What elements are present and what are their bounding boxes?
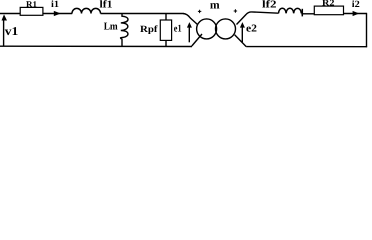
- svg-text:R1: R1: [26, 0, 37, 9]
- svg-text:v1: v1: [5, 24, 18, 38]
- wire R2 to right corner (with i2 arrow): [344, 13, 368, 15]
- polarity mark left: [198, 10, 201, 13]
- wire bottom rail left: [0, 45, 192, 47]
- resistor Rpf: [160, 20, 171, 40]
- resistor R2: [314, 6, 343, 15]
- current arrow i2: [353, 11, 360, 16]
- wire coil1 to transformer: [101, 13, 184, 15]
- wire Rpf top stub: [165, 14, 167, 21]
- inductor Lm (vertical loops): [121, 14, 128, 47]
- svg-text:R2: R2: [322, 0, 335, 8]
- transformer lead top-right: [237, 12, 252, 25]
- inductor lf2: [279, 8, 302, 13]
- svg-text:lf2: lf2: [262, 0, 277, 11]
- wire transformer to coil lf2: [252, 12, 279, 13]
- svg-text:Lm: Lm: [104, 22, 118, 33]
- resistor R1: [20, 7, 43, 15]
- transformer lead bottom-right: [235, 35, 247, 47]
- transformer lead bottom-left: [192, 34, 202, 46]
- svg-text:Rpf: Rpf: [140, 25, 158, 35]
- svg-text:e1: e1: [174, 24, 182, 35]
- svg-text:i2: i2: [352, 0, 360, 10]
- voltage arrow e2 head: [240, 22, 245, 28]
- svg-text:i1: i1: [51, 0, 59, 10]
- svg-text:m: m: [210, 0, 220, 11]
- coil lf2 end tick: [301, 9, 303, 17]
- polarity mark right: [234, 9, 237, 12]
- wire coil2 to R2: [301, 13, 315, 15]
- wire Rpf bottom stub: [165, 40, 167, 46]
- wire top-left segment: [0, 13, 21, 15]
- svg-text:e2: e2: [246, 24, 257, 35]
- transformer lead top-left: [183, 14, 198, 25]
- voltage arrow e1 head: [187, 22, 192, 28]
- svg-text:lf1: lf1: [100, 0, 113, 11]
- transformer winding 2: [216, 19, 236, 39]
- source arrow v1 shaft: [3, 18, 5, 47]
- transformer winding 1: [197, 19, 217, 39]
- wire R1 to coil lf1 (with i1 arrow on it): [43, 13, 72, 15]
- wire right vertical: [366, 14, 368, 48]
- voltage arrow e2 shaft: [241, 27, 243, 42]
- wire bottom rail right: [246, 46, 367, 48]
- inductor lf1: [72, 8, 101, 13]
- voltage arrow e1 shaft: [188, 27, 190, 42]
- source arrow v1 head: [2, 14, 8, 20]
- current arrow i1: [54, 11, 61, 16]
